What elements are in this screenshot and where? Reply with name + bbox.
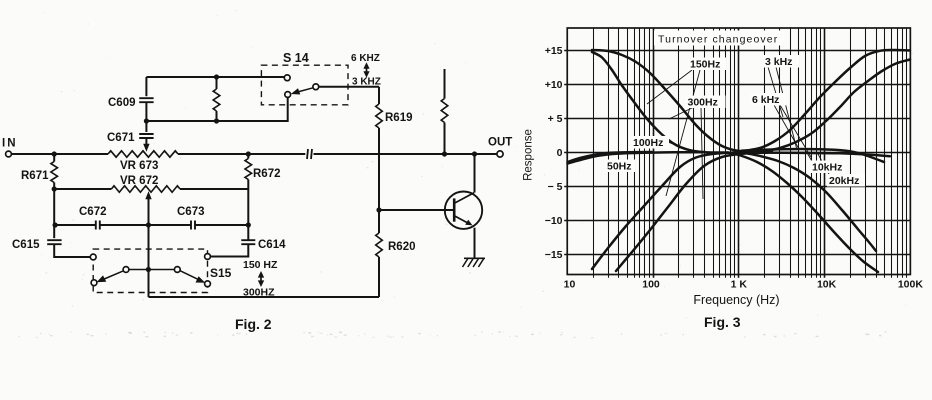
- leader 6kHz to curve b: [780, 105, 811, 157]
- svg-text:6 KHZ: 6 KHZ: [351, 53, 380, 64]
- svg-text:VR 672: VR 672: [120, 175, 158, 187]
- node junction rail left: [53, 222, 58, 227]
- node junction collector column: [472, 151, 477, 156]
- capacitor C673: [177, 206, 205, 230]
- svg-text:Fig. 3: Fig. 3: [704, 314, 741, 330]
- curve 20kHz: [758, 153, 890, 157]
- curve 300Hz bass boost: [592, 52, 728, 153]
- wire main line right segment: [314, 153, 497, 155]
- svg-text:C672: C672: [79, 206, 107, 218]
- node junction R671 top: [52, 151, 57, 156]
- wire C672 to C673: [100, 224, 191, 226]
- leader 100Hz to curve: [668, 142, 687, 150]
- curve 10kHz: [742, 149, 884, 162]
- node junction bottom rail left: [144, 118, 149, 123]
- resistor R671: [21, 154, 58, 189]
- node junction top rail resistor: [214, 74, 219, 79]
- svg-text:10kHz: 10kHz: [812, 162, 842, 174]
- chart border: [567, 28, 910, 275]
- label 6 kHz: [750, 93, 786, 106]
- svg-text:Fig. 2: Fig. 2: [235, 316, 272, 332]
- label 3 kHz: [763, 55, 799, 68]
- switch S15 pole left: [123, 267, 129, 273]
- curve 150Hz bass cut: [592, 152, 765, 269]
- switch S15 contact bottom-right: [205, 281, 211, 287]
- wire bottom: [149, 296, 380, 298]
- label 50Hz: [605, 160, 635, 173]
- svg-text:−10: −10: [545, 215, 563, 227]
- switch S14 pole contact: [313, 84, 319, 90]
- svg-text:C609: C609: [108, 97, 136, 109]
- svg-text:− 5: − 5: [548, 181, 563, 193]
- grid major vertical lines: [654, 28, 825, 278]
- resistor R619: [376, 87, 413, 128]
- wire second line right: [180, 188, 248, 190]
- resistor R672: [245, 154, 281, 189]
- capacitor C671: [107, 121, 154, 145]
- svg-text:R672: R672: [253, 168, 281, 180]
- label Turnover changeover: [654, 31, 784, 46]
- svg-text:OUT: OUT: [488, 137, 512, 149]
- svg-text:1 K: 1 K: [731, 279, 748, 291]
- ground symbol: [463, 258, 486, 267]
- node junction resistor column: [442, 151, 447, 156]
- wire bottom rail: [146, 97, 287, 121]
- svg-text:50Hz: 50Hz: [607, 161, 632, 173]
- svg-text:Frequency (Hz): Frequency (Hz): [693, 293, 779, 307]
- wire R672 column down to C614: [247, 189, 249, 240]
- svg-text:IN: IN: [2, 138, 18, 150]
- label 10kHz: [810, 161, 846, 174]
- switch S15 dashed box: [93, 249, 207, 292]
- leader 20kHz to curve: [818, 154, 830, 176]
- svg-text:150Hz: 150Hz: [690, 59, 720, 71]
- switch S15 pole right: [174, 267, 180, 273]
- svg-text:100K: 100K: [898, 279, 924, 291]
- label 150Hz: [688, 58, 726, 71]
- node IN terminal: [2, 138, 18, 157]
- leader 6kHz to curve a: [774, 105, 799, 149]
- leader 10kHz to curve: [806, 151, 813, 163]
- wire S14 pole to R619 column: [319, 86, 379, 88]
- svg-text:300Hz: 300Hz: [688, 97, 718, 109]
- capacitor series on main line: [307, 149, 312, 159]
- svg-text:3 kHz: 3 kHz: [765, 56, 792, 68]
- switch S14 lower contact: [285, 92, 291, 98]
- switch S15 left arm arrowhead: [97, 271, 124, 282]
- curve 3kHz treble boost: [745, 50, 910, 151]
- wire C673 rail right: [195, 224, 248, 226]
- capacitor C609: [108, 77, 154, 121]
- svg-text:+15: +15: [545, 45, 563, 57]
- svg-text:3 KHZ: 3 KHZ: [352, 77, 381, 88]
- node junction rail right: [246, 222, 251, 227]
- wiper arrow VR672: [145, 191, 151, 297]
- capacitor C672: [79, 206, 107, 230]
- svg-text:Turnover changeover: Turnover changeover: [658, 34, 778, 46]
- node junction rail center: [146, 222, 151, 227]
- grid horizontal lines: [564, 51, 910, 255]
- svg-text:C614: C614: [258, 239, 286, 251]
- switch S15 contact bottom-left: [91, 280, 97, 286]
- svg-text:10K: 10K: [817, 279, 837, 291]
- leader 3kHz to boost curve: [768, 67, 783, 117]
- wire collector: [474, 154, 476, 193]
- resistor unlabeled top: [213, 77, 220, 121]
- curve 6kHz treble cut: [748, 154, 876, 252]
- svg-text:0: 0: [557, 147, 563, 159]
- wire emitter: [474, 228, 476, 258]
- svg-text:VR 673: VR 673: [120, 160, 158, 172]
- curve 6kHz treble boost: [763, 60, 910, 152]
- x-axis labels: [564, 279, 924, 291]
- curve 3kHz treble cut: [728, 153, 878, 273]
- node junction base: [376, 207, 381, 212]
- node junction S15 center: [146, 267, 151, 272]
- wire main line mid segment: [178, 153, 305, 155]
- transistor Q1: [445, 192, 482, 229]
- curve 100Hz: [568, 152, 706, 163]
- label 300Hz: [686, 96, 726, 109]
- leader 150Hz to boost curve: [647, 70, 692, 104]
- svg-text:C671: C671: [107, 132, 135, 144]
- y-axis labels: [545, 45, 563, 261]
- wire top rail: [146, 76, 284, 78]
- switch S14 pole arm with arrowhead: [291, 88, 313, 95]
- node junction bottom rail resistor: [214, 118, 219, 123]
- svg-text:S15: S15: [210, 266, 232, 280]
- leader 150Hz to cut curve: [666, 70, 700, 196]
- curve 150Hz bass boost: [592, 50, 772, 152]
- curve 50Hz: [568, 152, 653, 162]
- svg-text:R671: R671: [21, 170, 49, 182]
- node junction R672 top: [246, 151, 251, 156]
- svg-text:R619: R619: [385, 112, 413, 124]
- node OUT terminal: [488, 137, 512, 158]
- label 100Hz: [631, 136, 669, 149]
- switch S14 upper contact: [284, 75, 290, 81]
- leader 3kHz to cut curve: [776, 67, 797, 150]
- wire second line left: [54, 188, 111, 190]
- capacitor C615: [12, 225, 90, 257]
- label 150HZ-300HZ double arrow: [258, 271, 264, 287]
- switch S15 contact top-right: [205, 254, 211, 260]
- svg-text:R620: R620: [388, 241, 416, 253]
- svg-text:20kHz: 20kHz: [829, 175, 859, 187]
- label 6KHZ-3KHZ double arrow: [363, 62, 369, 78]
- switch S15 contact top-left: [90, 254, 96, 260]
- grid minor vertical lines: [594, 28, 907, 278]
- svg-text:Response: Response: [523, 129, 535, 181]
- label 20kHz: [827, 174, 865, 187]
- scan speckle: [10, 10, 913, 339]
- wire S15 pole bar: [129, 269, 175, 271]
- wire C672 rail left: [54, 189, 95, 225]
- wire R619 to base junction: [378, 128, 380, 210]
- potentiometer VR673: [108, 151, 178, 172]
- svg-text:150 HZ: 150 HZ: [243, 259, 278, 271]
- leader 300Hz to boost curve: [669, 107, 694, 119]
- wire base: [379, 209, 453, 211]
- resistor R620: [376, 210, 416, 297]
- switch S14 dashed box: [261, 65, 348, 105]
- svg-text:C615: C615: [12, 239, 40, 251]
- node junction R671 bottom: [52, 186, 57, 191]
- capacitor C614: [210, 239, 286, 257]
- svg-text:S 14: S 14: [283, 51, 309, 65]
- svg-text:C673: C673: [177, 206, 205, 218]
- potentiometer VR672: [111, 175, 180, 192]
- svg-text:10: 10: [564, 279, 576, 291]
- curve 300Hz bass cut: [616, 153, 768, 271]
- svg-text:6 kHz: 6 kHz: [752, 94, 779, 106]
- leader 300Hz to cut curve: [701, 107, 703, 199]
- wiper arrow VR673: [143, 144, 149, 152]
- resistor unlabeled right: [441, 69, 448, 154]
- svg-text:−15: −15: [545, 249, 563, 261]
- svg-text:100: 100: [642, 279, 660, 291]
- svg-text:+ 5: + 5: [548, 113, 563, 125]
- wire main line left segment: [11, 153, 108, 155]
- svg-text:+10: +10: [545, 79, 563, 91]
- switch S15 right arm arrowhead: [180, 271, 205, 283]
- svg-text:100Hz: 100Hz: [633, 137, 663, 149]
